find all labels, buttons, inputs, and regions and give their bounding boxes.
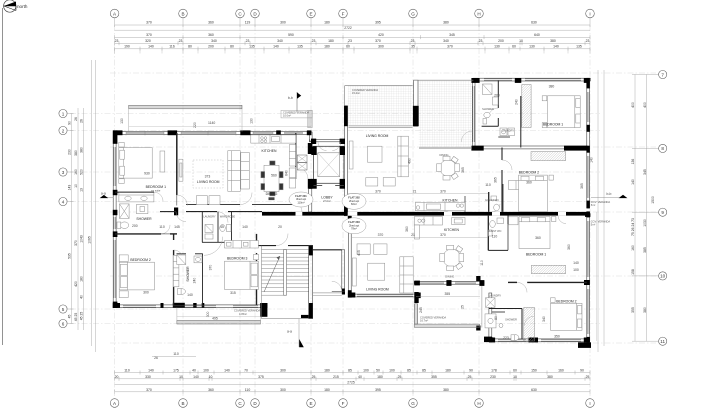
left dim vertical lines <box>68 60 96 352</box>
svg-text:100: 100 <box>203 369 209 373</box>
svg-text:110m²: 110m² <box>297 200 304 204</box>
svg-text:1500: 1500 <box>651 196 655 204</box>
guest wc302 fixtures <box>494 204 500 211</box>
bed bedroom1 flat304 <box>547 96 580 128</box>
svg-text:180: 180 <box>324 388 330 392</box>
tv unit living301 <box>179 159 183 181</box>
wall ensuite/bedroom2 divider <box>115 233 161 235</box>
svg-text:140: 140 <box>193 375 199 379</box>
bed bedroom3 flat301 <box>225 261 259 289</box>
svg-text:2725: 2725 <box>347 380 355 384</box>
svg-text:B: B <box>181 401 184 406</box>
svg-text:LIVING ROOM: LIVING ROOM <box>366 287 389 291</box>
top dim line row3 <box>115 35 590 39</box>
svg-text:WARDROBE: WARDROBE <box>220 215 235 219</box>
svg-text:F: F <box>342 11 345 16</box>
svg-text:360: 360 <box>208 388 214 392</box>
wall bedroom1/living divider <box>176 133 178 195</box>
svg-text:110: 110 <box>173 352 179 356</box>
svg-text:SHOWER: SHOWER <box>482 107 494 111</box>
kitchen301 counter <box>251 135 296 143</box>
LEFT DIMENSION BLOCK <box>59 60 96 352</box>
svg-text:BEDROOM 2: BEDROOM 2 <box>130 258 150 262</box>
flat301 top wall windows <box>126 131 164 133</box>
svg-text:380: 380 <box>549 84 555 88</box>
wall flat303 hall/br1 <box>507 216 509 250</box>
fridge kitchen301 <box>289 168 295 178</box>
svg-text:380: 380 <box>443 20 449 24</box>
bottom dim row2 <box>115 377 590 381</box>
svg-text:140: 140 <box>242 225 248 229</box>
RIGHT DIMENSION BLOCK <box>591 70 667 352</box>
wardrobe bedroom3 <box>225 241 259 249</box>
svg-text:380: 380 <box>550 39 556 43</box>
svg-text:23: 23 <box>348 39 352 43</box>
svg-text:395: 395 <box>375 388 381 392</box>
flat301 left exterior wall <box>113 132 116 308</box>
bottom dim line 2725 <box>115 383 590 385</box>
bench flat303 br1 <box>532 265 566 273</box>
svg-text:40: 40 <box>80 295 84 299</box>
svg-text:LIVING ROOM: LIVING ROOM <box>366 134 389 138</box>
wall flat302 guestwc left <box>488 192 490 212</box>
bottom dim row3 <box>115 389 590 393</box>
svg-text:25: 25 <box>398 375 402 379</box>
kitchen301 left tall cabinets <box>241 153 250 190</box>
svg-text:60: 60 <box>513 369 517 373</box>
svg-text:560: 560 <box>271 174 277 178</box>
svg-text:GUEST WC: GUEST WC <box>485 198 499 202</box>
svg-text:180: 180 <box>324 44 330 48</box>
door arcs <box>154 108 566 325</box>
svg-text:DINING: DINING <box>445 274 454 278</box>
svg-text:20: 20 <box>278 225 282 229</box>
svg-text:140: 140 <box>631 179 635 185</box>
svg-text:COVERED VERANDA: COVERED VERANDA <box>234 309 260 313</box>
svg-text:H: H <box>477 11 480 16</box>
svg-text:360: 360 <box>535 236 541 240</box>
svg-text:GUEST WC: GUEST WC <box>488 229 502 233</box>
svg-text:110: 110 <box>480 260 484 266</box>
svg-text:340: 340 <box>277 39 283 43</box>
svg-text:215: 215 <box>333 375 339 379</box>
left grid bubbles 1-6 <box>59 109 67 327</box>
svg-text:140: 140 <box>224 369 230 373</box>
svg-text:240: 240 <box>192 278 196 284</box>
svg-text:135: 135 <box>576 44 582 48</box>
flat302/304 divider wall <box>472 80 475 148</box>
svg-text:25: 25 <box>586 375 590 379</box>
svg-text:135: 135 <box>249 44 255 48</box>
wall laundry divider <box>201 212 203 243</box>
svg-text:en suite: en suite <box>151 189 161 193</box>
svg-text:23: 23 <box>411 39 415 43</box>
svg-text:140: 140 <box>148 369 154 373</box>
flat301 bottom exterior wall <box>113 305 267 308</box>
svg-text:110: 110 <box>485 183 491 187</box>
stairs steps <box>262 250 309 296</box>
svg-text:90: 90 <box>469 369 473 373</box>
flat304 top wall windows <box>484 78 512 80</box>
flat303 living room bottom wall <box>348 294 419 297</box>
svg-text:365: 365 <box>580 183 584 189</box>
svg-text:630: 630 <box>531 20 537 24</box>
svg-text:a-a: a-a <box>287 330 292 334</box>
svg-text:130: 130 <box>494 44 500 48</box>
svg-text:535: 535 <box>68 253 72 259</box>
veranda flat303 rails <box>415 324 480 327</box>
elevator door <box>314 185 323 187</box>
section marker b-b bottom <box>287 319 304 348</box>
tv unit living303 <box>352 258 356 286</box>
svg-text:80: 80 <box>494 316 498 320</box>
dresser bedroom1 <box>160 151 165 172</box>
svg-text:395: 395 <box>375 20 381 24</box>
bottom fine dim row1 <box>115 371 590 375</box>
descending ticks below last top dim line <box>115 49 590 54</box>
wardrobe flat303 br2 <box>524 308 535 342</box>
svg-text:85: 85 <box>348 369 352 373</box>
svg-text:KITCHEN: KITCHEN <box>262 149 277 153</box>
svg-text:370: 370 <box>74 240 78 246</box>
svg-text:DINING: DINING <box>439 153 448 157</box>
wardrobe flat304 br2 <box>531 152 566 161</box>
wall laundry/wardrobe bottom <box>202 241 257 243</box>
svg-text:6: 6 <box>62 321 65 326</box>
window glazing lines <box>114 79 589 341</box>
svg-text:200: 200 <box>132 224 138 228</box>
svg-text:1043: 1043 <box>80 235 84 243</box>
svg-text:490: 490 <box>408 158 412 164</box>
svg-text:640: 640 <box>285 170 289 176</box>
flat304 right wall windows <box>587 92 589 122</box>
svg-text:360: 360 <box>526 180 532 184</box>
svg-text:5: 5 <box>62 307 65 312</box>
svg-text:3: 3 <box>62 170 65 175</box>
basin unit ensuite <box>136 205 148 214</box>
svg-text:SHOWER: SHOWER <box>505 318 517 322</box>
svg-text:LAUNDRY: LAUNDRY <box>489 294 502 298</box>
svg-text:15.4m²: 15.4m² <box>352 91 360 95</box>
svg-text:2722: 2722 <box>344 26 352 30</box>
svg-text:245: 245 <box>419 307 423 313</box>
svg-text:380: 380 <box>74 150 78 156</box>
svg-text:KITCHEN: KITCHEN <box>443 198 458 202</box>
svg-text:370: 370 <box>440 189 446 193</box>
columns lobby block <box>311 139 316 144</box>
balcony rail flat301 bottom <box>177 320 261 324</box>
small veranda left of flat302 <box>281 110 312 118</box>
guest wc303 fixtures <box>490 221 496 228</box>
svg-text:140: 140 <box>590 157 594 163</box>
svg-text:75 26 24 73: 75 26 24 73 <box>631 218 635 236</box>
flat301 top exterior wall <box>114 132 312 135</box>
svg-text:110: 110 <box>124 369 130 373</box>
svg-text:60: 60 <box>512 44 516 48</box>
svg-text:1: 1 <box>62 111 65 116</box>
svg-text:80: 80 <box>188 44 192 48</box>
flat303 right exterior wall <box>587 212 590 342</box>
svg-text:340: 340 <box>443 39 449 43</box>
frame edge line left <box>2 8 4 345</box>
svg-text:160: 160 <box>558 369 564 373</box>
svg-text:45 25: 45 25 <box>74 313 78 322</box>
flat304 top exterior wall <box>473 78 590 81</box>
svg-text:370: 370 <box>146 388 152 392</box>
flat302 window to veranda <box>349 125 413 127</box>
svg-text:LOBBY: LOBBY <box>321 196 333 200</box>
svg-text:b-b: b-b <box>288 96 293 100</box>
svg-text:175: 175 <box>173 369 179 373</box>
svg-text:220: 220 <box>193 122 197 128</box>
dining table flat301 <box>264 165 279 191</box>
svg-text:373: 373 <box>205 175 211 179</box>
svg-text:G: G <box>411 401 415 406</box>
door leaves <box>161 167 342 291</box>
svg-text:340: 340 <box>211 39 217 43</box>
wall flat304 shower bottom <box>482 125 499 127</box>
svg-text:10: 10 <box>513 375 517 379</box>
svg-text:F: F <box>342 401 345 406</box>
svg-text:140: 140 <box>553 44 559 48</box>
flat303 bottom exterior wall <box>491 339 590 342</box>
svg-text:365: 365 <box>494 177 498 183</box>
right dim vertical lines <box>598 70 659 352</box>
flat303 right wall windows <box>587 221 589 277</box>
svg-text:180: 180 <box>377 375 383 379</box>
columns flat301 top <box>113 130 345 316</box>
armchairs living302 <box>366 178 378 186</box>
svg-text:143: 143 <box>68 185 72 191</box>
svg-text:40: 40 <box>358 375 362 379</box>
svg-text:360: 360 <box>208 20 214 24</box>
svg-text:23: 23 <box>179 39 183 43</box>
svg-text:130: 130 <box>120 118 124 124</box>
svg-text:1065: 1065 <box>88 236 92 244</box>
dining table flat302 round <box>440 160 456 176</box>
svg-text:370: 370 <box>375 39 381 43</box>
svg-text:140: 140 <box>148 44 154 48</box>
shower303 fixtures <box>512 335 519 341</box>
wall bedroom2/3 divider <box>173 234 175 240</box>
top grid bubbles A-I <box>110 9 594 18</box>
svg-text:1030: 1030 <box>643 219 647 227</box>
svg-text:H: H <box>477 401 480 406</box>
svg-text:4.05m²: 4.05m² <box>239 312 247 316</box>
svg-text:178: 178 <box>491 369 497 373</box>
svg-text:G: G <box>411 11 415 16</box>
balcony rail flat301 top <box>129 105 242 109</box>
bed bedroom2 flat304 <box>519 175 548 212</box>
sofa living301 <box>228 151 241 192</box>
wall shower2 top <box>177 253 187 255</box>
svg-text:78m²: 78m² <box>351 227 357 231</box>
entrance threshold <box>313 292 342 294</box>
svg-text:82m²: 82m² <box>351 202 357 206</box>
window sill tick marks <box>126 131 273 136</box>
svg-text:180: 180 <box>324 369 330 373</box>
svg-text:140: 140 <box>273 44 279 48</box>
svg-text:355: 355 <box>444 292 450 296</box>
svg-text:BEDROOM 3: BEDROOM 3 <box>227 256 247 260</box>
svg-text:23: 23 <box>586 39 590 43</box>
svg-text:180: 180 <box>445 369 451 373</box>
wardrobe shaft bedroom2 <box>173 255 179 286</box>
svg-text:495: 495 <box>212 316 218 320</box>
wall ensuite top <box>115 191 154 193</box>
svg-text:100: 100 <box>389 369 395 373</box>
svg-text:B: B <box>181 11 184 16</box>
eaves line right <box>595 212 597 341</box>
lobby top recessed wall <box>310 139 345 142</box>
wall kitchen301 right <box>295 133 297 167</box>
svg-text:100: 100 <box>573 268 579 272</box>
svg-text:BEDROOM 1: BEDROOM 1 <box>526 253 546 257</box>
dining table flat303 round <box>443 249 461 267</box>
section marker a-a left <box>100 191 114 198</box>
svg-text:25: 25 <box>312 375 316 379</box>
svg-text:300: 300 <box>280 20 286 24</box>
columns flat302 left wall <box>344 106 348 126</box>
flat303 bottom wall windows <box>498 339 526 341</box>
svg-text:I: I <box>589 11 590 16</box>
flat304/302 party wall row8 <box>473 146 587 149</box>
svg-text:E: E <box>309 401 312 406</box>
columns flat301 bottom <box>113 303 120 308</box>
coffee tables living301 <box>196 196 207 205</box>
tv unit living302 <box>349 141 353 169</box>
svg-text:160: 160 <box>631 245 635 251</box>
north arrow <box>4 0 28 12</box>
svg-text:136: 136 <box>631 159 635 165</box>
svg-text:85: 85 <box>407 369 411 373</box>
svg-text:200: 200 <box>498 39 504 43</box>
svg-text:25: 25 <box>468 375 472 379</box>
flat301 left wall windows <box>113 147 115 186</box>
svg-text:385: 385 <box>643 247 647 253</box>
svg-text:340: 340 <box>542 316 546 322</box>
svg-text:5m²: 5m² <box>591 203 596 207</box>
svg-text:16.7m²: 16.7m² <box>420 319 428 323</box>
flat303 living bottom window <box>357 294 413 296</box>
grid axis lines vertical A-I <box>115 25 590 396</box>
svg-text:LAUNDRY: LAUNDRY <box>203 215 216 219</box>
svg-text:BEDROOM 1: BEDROOM 1 <box>146 185 166 189</box>
bottom grid bubbles A-I <box>110 399 594 408</box>
svg-text:10: 10 <box>179 375 183 379</box>
svg-text:23: 23 <box>246 39 250 43</box>
svg-text:70: 70 <box>244 369 248 373</box>
flat303 laundry block left wall <box>489 293 492 342</box>
svg-text:119: 119 <box>245 20 251 24</box>
flat304 right exterior wall <box>587 78 590 208</box>
flat ovals <box>289 192 366 234</box>
TOP DIMENSION BLOCK <box>110 9 594 53</box>
BOTTOM DIMENSION BLOCK <box>110 352 594 407</box>
svg-text:LIVING ROOM: LIVING ROOM <box>197 180 220 184</box>
svg-text:140: 140 <box>573 261 579 265</box>
top dim line 2722 <box>115 29 590 31</box>
wall bedroom3 right <box>256 234 258 243</box>
wall hallway bottom <box>160 211 176 213</box>
svg-text:26: 26 <box>80 119 84 123</box>
washers laundry303 <box>486 298 496 308</box>
svg-text:35: 35 <box>411 44 415 48</box>
svg-text:315: 315 <box>230 291 236 295</box>
svg-text:10.0m²: 10.0m² <box>283 114 291 118</box>
wardrobe flat304 br1 <box>522 85 531 128</box>
flat302 left wall <box>344 106 347 216</box>
svg-text:26: 26 <box>74 117 78 121</box>
grid axis lines horizontal 1-6 and 7-11 <box>70 73 656 343</box>
svg-text:21: 21 <box>413 189 417 193</box>
svg-text:380: 380 <box>80 147 84 153</box>
svg-text:10: 10 <box>660 274 666 279</box>
top dim line row4 <box>115 41 590 45</box>
svg-text:300: 300 <box>143 291 149 295</box>
svg-text:300: 300 <box>378 44 384 48</box>
svg-text:10: 10 <box>209 375 213 379</box>
svg-text:345: 345 <box>449 33 455 37</box>
svg-text:360: 360 <box>567 244 571 250</box>
svg-text:I: I <box>589 401 590 406</box>
svg-text:45 25: 45 25 <box>80 312 84 321</box>
svg-text:80: 80 <box>230 44 234 48</box>
wall flat304 laundry bottom <box>498 136 510 138</box>
section marker b-b top <box>288 92 301 112</box>
svg-text:370: 370 <box>447 44 453 48</box>
svg-text:380: 380 <box>547 375 553 379</box>
rug living301 <box>193 160 223 188</box>
svg-text:160: 160 <box>74 169 78 175</box>
svg-text:2: 2 <box>62 128 65 133</box>
stairs up-line <box>264 256 280 292</box>
svg-text:360: 360 <box>405 226 409 232</box>
svg-text:370: 370 <box>375 189 381 193</box>
wall flat303 br1/br2 divider <box>527 281 587 283</box>
table living302 <box>368 146 383 162</box>
svg-text:11: 11 <box>660 339 665 344</box>
svg-text:20: 20 <box>115 375 119 379</box>
svg-text:405: 405 <box>357 250 361 256</box>
wall stairwell right <box>309 246 313 319</box>
svg-text:380: 380 <box>643 307 647 313</box>
svg-text:E: E <box>309 11 312 16</box>
BUILDING <box>100 78 611 348</box>
sofa living303 <box>400 257 413 293</box>
svg-text:200: 200 <box>494 94 500 98</box>
svg-text:BEDROOM 2: BEDROOM 2 <box>519 170 539 174</box>
svg-text:355: 355 <box>431 375 437 379</box>
wardrobe racks <box>220 225 226 232</box>
stairwell bottom edge <box>262 318 313 320</box>
wall entrance right <box>342 250 345 291</box>
svg-text:630: 630 <box>531 388 537 392</box>
svg-text:640: 640 <box>534 33 540 37</box>
svg-text:DINING: DINING <box>266 192 278 196</box>
duct shafts <box>297 155 307 162</box>
svg-text:360: 360 <box>208 33 214 37</box>
stairs center rail <box>284 250 287 296</box>
svg-text:8: 8 <box>661 146 664 151</box>
bed bedroom1 flat301 <box>119 148 152 179</box>
vanity ensuite <box>119 193 154 202</box>
svg-text:520: 520 <box>80 169 84 175</box>
wall flat303 guestwc <box>487 216 489 251</box>
laundry304 washer <box>500 128 507 136</box>
svg-text:23: 23 <box>115 39 119 43</box>
shower tray ensuite <box>120 204 130 219</box>
